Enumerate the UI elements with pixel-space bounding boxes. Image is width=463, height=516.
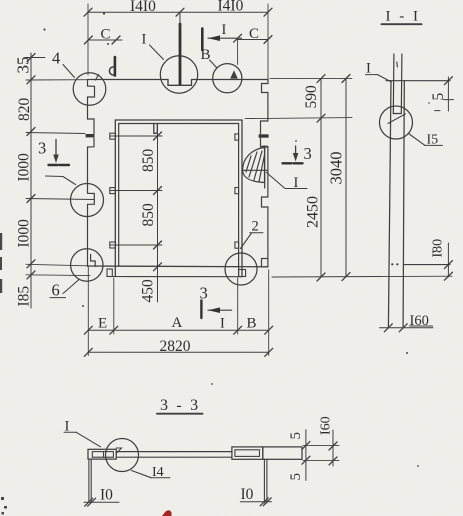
label I5 — [409, 134, 426, 146]
dim line 3040 — [345, 79, 347, 277]
fixture plate left 2 — [110, 188, 116, 194]
svg-text:B: B — [201, 47, 211, 63]
tick — [264, 8, 272, 16]
centre extension line — [179, 12, 181, 29]
3-3 right box 2 — [263, 447, 302, 459]
leader to mid-left circle — [46, 176, 76, 185]
label I (hatched fixture) — [267, 173, 308, 189]
fixture plate right 1 — [235, 134, 239, 140]
I-I shoulder line — [404, 264, 450, 266]
svg-text:I4I0: I4I0 — [130, 0, 156, 15]
3-3 right box 1 — [232, 447, 263, 459]
right foot block — [239, 270, 246, 277]
svg-text:I: I — [220, 316, 225, 332]
dim 5 (I-I) — [447, 77, 449, 111]
section marker 3 (right) — [295, 146, 297, 159]
weld dots — [391, 263, 393, 265]
svg-text:I - I: I - I — [386, 9, 421, 25]
opening right outer line — [241, 120, 243, 277]
svg-text:I4: I4 — [152, 465, 164, 480]
svg-text:450: 450 — [140, 279, 157, 303]
I-I detail circle 15 — [380, 106, 413, 139]
panel top edge — [88, 80, 268, 86]
fixture plate left 3 — [110, 242, 116, 248]
dim 10 right — [240, 501, 271, 503]
dim 5/5 line — [305, 430, 307, 481]
right edge bottom notch — [262, 259, 268, 267]
dim 180 — [447, 243, 449, 277]
3-3 detail circle 14 — [106, 439, 139, 472]
I-I member left line — [388, 81, 391, 327]
extension x=268.7 below panel — [268, 270, 270, 356]
opening right inner line — [238, 124, 240, 277]
label I4 — [132, 471, 152, 478]
I-I slot bottom — [393, 113, 401, 115]
svg-text:3040: 3040 — [327, 152, 346, 185]
dim line 590/2450 — [320, 79, 322, 277]
detail circle I (top centre) — [160, 56, 197, 93]
extension x=237.7 below panel — [237, 278, 239, 334]
extension x=88 below panel — [87, 267, 89, 356]
I-I break diagonal — [388, 114, 406, 124]
svg-text:850: 850 — [140, 203, 157, 227]
3-3 extension lines right — [303, 444, 339, 446]
extension mid — [26, 199, 94, 200]
I-I member right line — [403, 81, 404, 327]
extension x=113.8 below panel — [113, 278, 115, 334]
dim 160 (I-I bottom) — [380, 327, 434, 329]
svg-text:850: 850 — [140, 149, 157, 173]
detail circle (mid left) — [71, 184, 104, 217]
left edge key notch — [88, 119, 95, 134]
svg-text:2450: 2450 — [305, 196, 322, 228]
opening top outer line — [115, 119, 242, 121]
svg-text:C: C — [249, 26, 259, 42]
dim 10 left — [84, 501, 119, 503]
left dimension chain line — [30, 53, 32, 308]
svg-text:I80: I80 — [431, 239, 446, 258]
bottom edge extension line left — [26, 264, 88, 266]
3-3 left end box — [88, 449, 116, 459]
svg-text:3: 3 — [38, 139, 46, 158]
dim C right — [238, 39, 268, 41]
svg-text:4: 4 — [52, 49, 60, 68]
svg-text:590: 590 — [303, 85, 320, 109]
bottom-left corner step detail — [91, 255, 96, 267]
left edge middle tab (detail 3 area) — [88, 193, 95, 266]
red pen mark bottom centre — [162, 510, 172, 516]
hatched half-disc fixture on right jamb — [242, 146, 268, 188]
svg-text:I0: I0 — [241, 486, 254, 503]
I-I member top edge — [386, 80, 450, 82]
extension 35 top — [26, 57, 45, 59]
svg-text:5: 5 — [288, 473, 304, 481]
extension down to circle B — [237, 38, 239, 64]
svg-text:E: E — [98, 316, 107, 332]
panel bottom edge — [88, 265, 269, 268]
svg-text:I: I — [222, 22, 227, 38]
top extension to right — [270, 77, 352, 79]
top-centre hanger hook on opening top edge — [154, 124, 158, 133]
svg-text:I000: I000 — [16, 219, 33, 248]
3-3 mid bar top line — [116, 451, 232, 453]
panel right edge — [262, 80, 269, 122]
3-3 left leg — [88, 459, 90, 501]
3-3 right leg — [263, 459, 265, 503]
svg-text:I: I — [142, 32, 147, 48]
tick — [176, 8, 184, 16]
detail circle B (top right) — [213, 64, 242, 93]
I-I tongue right line — [400, 54, 403, 114]
bottom shared extension line — [272, 275, 452, 278]
fixture plate right 3 — [235, 242, 239, 248]
svg-text:A: A — [172, 315, 183, 331]
dim 160 line (3-3) — [332, 430, 334, 466]
svg-text:820: 820 — [16, 98, 33, 122]
opening left outer line — [114, 120, 116, 277]
svg-text:6: 6 — [52, 281, 60, 300]
section marker I (top) flag bar — [201, 29, 204, 51]
dim C left — [88, 39, 122, 41]
svg-text:I85: I85 — [16, 286, 33, 307]
svg-text:5: 5 — [288, 432, 304, 440]
sill bottom extension line left — [26, 274, 90, 277]
fixture plate left 1 — [110, 133, 116, 139]
svg-text:C: C — [101, 27, 111, 43]
svg-text:I60: I60 — [410, 313, 429, 329]
extension line right x=268 — [267, 4, 269, 79]
right edge lower notch — [262, 197, 268, 259]
svg-text:B: B — [247, 316, 257, 332]
opening-top extension to right — [245, 118, 352, 119]
opening top inner line — [119, 123, 239, 125]
left foot block — [107, 269, 112, 277]
interior dim line — [157, 125, 159, 303]
triangle mark in circle B — [231, 71, 237, 78]
tick — [84, 8, 92, 16]
svg-text:I60: I60 — [319, 416, 334, 435]
thick centre bar in circle I — [179, 24, 182, 84]
interior extension 3 — [110, 244, 162, 246]
3-3 mid bar bottom line — [116, 456, 232, 458]
extension 820 bottom — [26, 133, 85, 134]
svg-text:I4I0: I4I0 — [218, 0, 244, 15]
svg-text:3 - 3: 3 - 3 — [160, 397, 200, 414]
dim line 2820 — [88, 351, 268, 353]
dim line 1410+1410 — [88, 11, 268, 13]
top edge small tick — [96, 75, 99, 81]
opening left inner line — [118, 124, 120, 267]
I-I tongue left line — [392, 54, 395, 114]
detail circle 6 (bottom-left corner) — [71, 249, 103, 281]
section marker I arrow — [208, 37, 242, 39]
svg-text:I5: I5 — [427, 133, 439, 148]
fixture plate right 2 — [235, 188, 239, 194]
interior extension 1 — [110, 135, 162, 137]
svg-text:3: 3 — [304, 144, 312, 163]
extension line left x=88 — [87, 4, 89, 75]
svg-text:2: 2 — [252, 219, 259, 235]
lifting pin — [114, 57, 117, 76]
svg-text:I000: I000 — [16, 153, 33, 182]
detail circle 3 (bottom right) — [225, 253, 257, 285]
detail circle 4 (top-left corner) — [73, 73, 106, 106]
top edge extension line left — [26, 79, 88, 81]
svg-text:2820: 2820 — [160, 338, 191, 355]
dim row E A B — [88, 329, 268, 331]
right edge key notch — [261, 121, 268, 134]
sill line across opening — [112, 276, 242, 278]
svg-text:35: 35 — [14, 57, 33, 74]
interior extension 2 — [110, 190, 162, 192]
svg-text:I: I — [294, 175, 299, 191]
svg-text:5: 5 — [430, 93, 447, 101]
3-3 junction wedge — [116, 448, 121, 453]
panel left edge with corner tab — [88, 80, 95, 120]
svg-text:I0: I0 — [100, 487, 113, 504]
I-I tongue mark — [396, 62, 399, 67]
